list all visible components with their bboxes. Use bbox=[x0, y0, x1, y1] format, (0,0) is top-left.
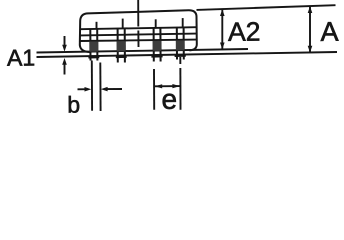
center line bbox=[137, 0, 139, 47]
lead 4 foot bbox=[175, 54, 186, 57]
lead 2 bbox=[117, 28, 119, 62]
standoff line (body bottom extended) bbox=[37, 49, 249, 53]
lead 4 stub bbox=[182, 18, 184, 28]
lead 3 stub bbox=[155, 19, 157, 28]
A bottom arrowhead bbox=[308, 46, 313, 53]
e extension lines bbox=[153, 69, 155, 110]
lead 1 bbox=[89, 29, 91, 61]
A1 dimension arrows bbox=[64, 36, 66, 48]
label b bbox=[69, 96, 79, 113]
A2 dimension shaft bbox=[221, 9, 223, 49]
label A bbox=[320, 22, 338, 41]
b right arrowhead bbox=[101, 87, 108, 92]
lead 3 lower solid bbox=[153, 41, 162, 51]
label A1 bbox=[7, 50, 34, 66]
b left arrowhead bbox=[85, 87, 92, 92]
seating plane bbox=[37, 52, 338, 57]
lead 3 foot bbox=[151, 55, 162, 58]
lead 2 foot bbox=[116, 56, 127, 59]
mold line L3 bbox=[80, 34, 197, 36]
mold line L4 bbox=[80, 40, 197, 41]
package body outline bbox=[80, 10, 197, 52]
lead 2 stub bbox=[122, 19, 124, 28]
label A2 bbox=[228, 22, 259, 41]
A dimension shaft bbox=[309, 6, 311, 52]
mold line L2 bbox=[80, 27, 196, 29]
b extension lines bbox=[91, 61, 93, 111]
A1 up arrowhead bbox=[62, 58, 67, 65]
lead 1 foot bbox=[88, 56, 99, 59]
lead 4 bbox=[176, 27, 178, 59]
e right arrowhead bbox=[172, 84, 180, 88]
A2 top arrowhead bbox=[220, 9, 225, 16]
top extension line bbox=[197, 5, 336, 10]
lead 1 stub bbox=[96, 22, 98, 29]
lead 1 lower solid bbox=[89, 42, 98, 52]
lead 4 lower solid bbox=[176, 40, 185, 50]
e left arrowhead bbox=[155, 84, 163, 88]
lead 3 bbox=[153, 28, 155, 62]
b arrows shafts bbox=[78, 88, 89, 90]
e arrows shaft bbox=[155, 85, 180, 87]
A top arrowhead bbox=[308, 6, 313, 13]
label e bbox=[163, 94, 176, 109]
A1 down arrowhead bbox=[62, 45, 67, 52]
lead 2 lower solid bbox=[117, 41, 126, 51]
A2 bottom arrowhead bbox=[220, 43, 225, 50]
